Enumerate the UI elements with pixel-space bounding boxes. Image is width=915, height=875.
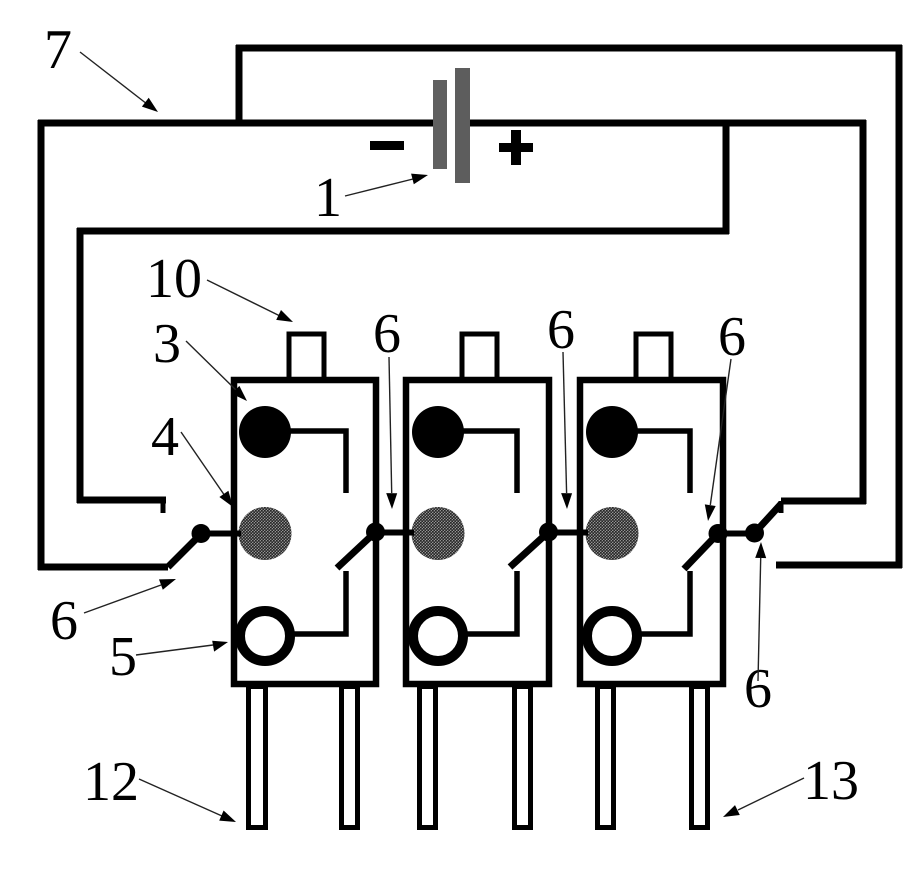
switch 6 #2 lever (open, inside unit 1) — [337, 532, 376, 568]
tab 10 of unit 1 — [289, 334, 324, 382]
wire: switch #2 to unit 2 hatched disc — [376, 530, 415, 536]
switch 6 #3 lever (open, inside unit 2) — [510, 532, 549, 567]
switch 6 #4 outer node — [745, 524, 764, 543]
wire: inner drop from positive lead at x=726 — [723, 120, 730, 234]
tab of unit 3 — [636, 334, 671, 382]
leader arrow for 6 #2 — [386, 357, 397, 509]
switch 6 #1 lever (closed to outer loop) — [168, 534, 201, 567]
leg (unit 2 right) — [515, 687, 531, 828]
wire: outer-loop left vertical — [38, 120, 45, 570]
unit 3: black electrode disc — [586, 406, 638, 458]
unit 3: wire from black disc to right bracket — [612, 431, 690, 493]
switch 6 #1 pivot node — [192, 524, 211, 543]
leader arrow for 5 — [136, 641, 228, 655]
wire: inner right vertical — [860, 120, 867, 504]
svg-text:7: 7 — [44, 19, 72, 81]
unit 2: ring electrode — [413, 611, 463, 661]
cell unit 3 body — [580, 380, 723, 684]
wire: inner horizontal bus at y=231 — [77, 228, 729, 235]
svg-text:13: 13 — [803, 750, 859, 812]
unit 2: hatched electrode disc — [412, 507, 465, 560]
wire: inner right contact stub — [781, 498, 866, 505]
unit 1: wire from ring electrode up right bracket — [265, 571, 346, 634]
wire: drop from top wire down to battery negative lead — [236, 45, 243, 126]
unit 2: black electrode disc — [412, 406, 464, 458]
switch 6 #4 inner lever (open, inside unit 3) — [684, 534, 718, 570]
wire: switch #3 to unit 3 hatched disc — [549, 530, 589, 536]
svg-text:6: 6 — [373, 303, 401, 365]
battery B1 negative plate — [433, 80, 447, 169]
leg (unit 2 left) — [420, 687, 436, 828]
wire: outer-loop bottom-right horizontal (open contact end) — [776, 562, 902, 569]
svg-text:6: 6 — [718, 306, 746, 368]
leader arrow for bottom-right 6 — [755, 542, 766, 681]
unit 2: wire from black disc to right bracket — [438, 431, 517, 493]
leader arrow for 4 — [181, 432, 233, 507]
cell unit 2 body — [406, 380, 549, 684]
switch 6 #3 pivot node — [539, 523, 558, 542]
battery minus sign — [370, 141, 404, 150]
wire: battery positive lead (right horizontal) — [470, 120, 866, 127]
leader arrow for 1 — [345, 174, 428, 196]
wire: battery negative lead (left horizontal) — [38, 120, 434, 127]
cell unit 1 body (3) — [234, 380, 376, 684]
leg 13 (unit 3 right) — [692, 687, 708, 828]
svg-text:6: 6 — [547, 299, 575, 361]
leader arrow for 3 — [186, 341, 247, 401]
leader arrow for 7 — [80, 52, 158, 112]
switch 6 #4 wall node — [709, 524, 728, 543]
unit 1: wire from black disc to right bracket — [265, 431, 346, 493]
leader arrow for 12 — [139, 779, 236, 822]
leader arrow for left 6 — [84, 579, 176, 613]
node: inner right contact tick — [779, 501, 784, 513]
battery plus sign — [499, 130, 533, 165]
wire: switch #4 wall node to outer node — [718, 531, 754, 537]
wire: inner left contact stub — [77, 497, 166, 504]
unit 1: ring electrode 5 — [240, 611, 290, 661]
svg-text:5: 5 — [109, 626, 137, 688]
wire: inner left vertical — [77, 228, 84, 503]
switch 6 #4 outer lever (closed up to inner right stub) — [755, 504, 782, 533]
leader arrow for 10 — [207, 280, 293, 322]
leg (unit 3 left) — [598, 687, 614, 828]
wire: switch #1 to unit 1 hatched disc — [201, 531, 241, 537]
unit 1: black electrode disc — [239, 406, 291, 458]
wire: outer-loop right vertical — [896, 45, 903, 568]
svg-text:4: 4 — [151, 406, 179, 468]
svg-text:1: 1 — [314, 167, 342, 229]
leg (unit 1 right) — [342, 687, 358, 828]
leader arrow for 13 — [723, 778, 804, 817]
svg-text:3: 3 — [153, 313, 181, 375]
node: inner left contact tick — [161, 500, 166, 513]
leader arrow for 6 #3 — [561, 352, 572, 509]
battery B1 positive plate — [455, 68, 470, 183]
switch 6 #2 pivot node — [366, 523, 385, 542]
unit 3: hatched electrode disc — [586, 507, 639, 560]
wire 7: top outer-loop horizontal — [236, 45, 902, 52]
unit 2: wire from ring electrode up right bracket — [438, 571, 517, 634]
leg 12 (unit 1 left) — [249, 687, 266, 828]
unit 1: hatched electrode disc 4 — [239, 507, 292, 560]
svg-text:10: 10 — [146, 248, 202, 310]
unit 3: wire from ring electrode up right bracket — [612, 571, 690, 634]
unit 3: ring electrode — [587, 611, 637, 661]
wire: outer-loop bottom-left horizontal to switch 6 throw — [38, 564, 168, 571]
tab of unit 2 — [462, 334, 497, 382]
svg-text:6: 6 — [50, 590, 78, 652]
leader arrow for 6 #4 — [705, 359, 731, 521]
svg-text:12: 12 — [83, 751, 139, 813]
